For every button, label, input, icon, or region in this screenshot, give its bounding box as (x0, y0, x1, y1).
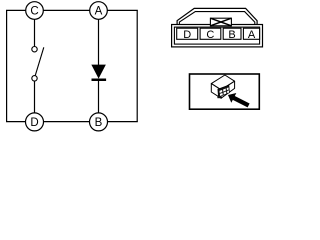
terminal A (90, 2, 108, 20)
wire right (136, 10, 138, 121)
svg-text:C: C (206, 29, 214, 41)
wire C to switch (34, 19, 36, 46)
terminal D (26, 113, 44, 131)
svg-text:C: C (30, 6, 38, 18)
inset box (190, 74, 260, 109)
wire bottom (6, 121, 138, 123)
cavity B (223, 28, 241, 41)
connector key bowtie (210, 18, 231, 26)
svg-text:D: D (30, 117, 38, 129)
terminal B (90, 113, 108, 131)
diode (92, 65, 107, 81)
connector body outer (172, 25, 263, 47)
svg-text:A: A (248, 29, 256, 41)
connector icon socket (217, 85, 229, 98)
connector hood inner (179, 12, 254, 25)
wire switch to D (34, 81, 36, 113)
connector hood outer (177, 8, 257, 24)
wire left (6, 10, 8, 121)
svg-text:A: A (95, 6, 103, 18)
arrow (228, 93, 250, 107)
wire A to diode (98, 19, 100, 65)
wire diode to B (98, 81, 100, 113)
wire top (6, 9, 138, 11)
svg-text:D: D (183, 29, 191, 41)
connector body inner (174, 27, 259, 44)
connector icon body (211, 75, 234, 98)
switch (32, 47, 44, 82)
cavity D (177, 28, 198, 41)
cavity A (243, 28, 259, 41)
svg-text:B: B (95, 117, 103, 129)
svg-text:B: B (228, 29, 235, 41)
terminal C (26, 2, 44, 20)
cavity C (200, 28, 221, 41)
